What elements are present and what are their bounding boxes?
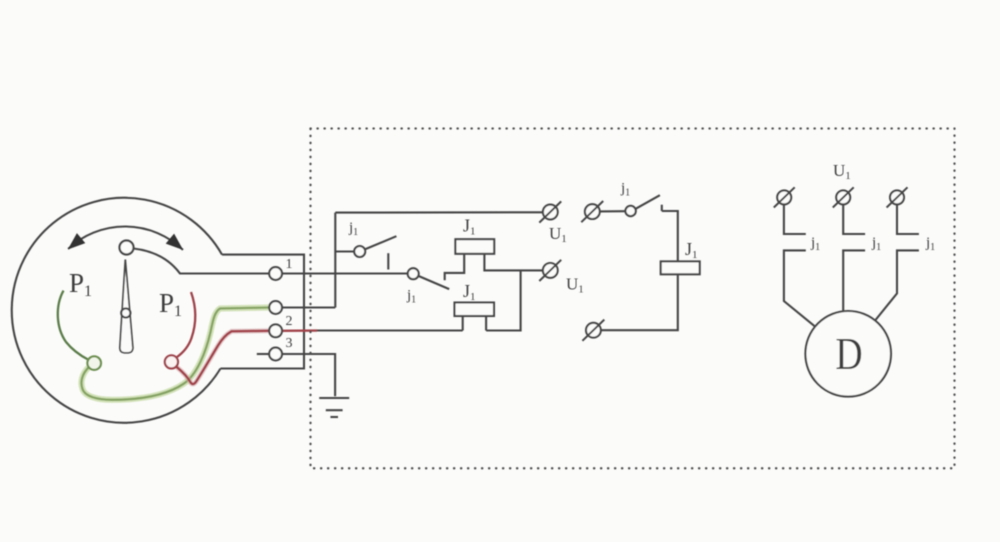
gauge scale double arrow: [68, 226, 183, 250]
wire contact to coil J1: [662, 211, 678, 261]
contact j1 third: [600, 195, 662, 216]
terminal 2: [269, 324, 282, 337]
pressure gauge P1 body: [12, 198, 222, 423]
bottom rail wire (terminal 2 row to relay blocks): [313, 329, 463, 331]
green low-limit set pointer arc P1: [58, 291, 88, 360]
contact j1 second: [408, 268, 450, 289]
svg-text:3: 3: [286, 336, 293, 351]
red wire to terminal 2: [177, 331, 270, 384]
needle pointer: [120, 260, 133, 353]
contact j1 first (relay NO contact): [335, 236, 396, 269]
needle pivot: [121, 308, 130, 317]
relay coil J1: [661, 261, 700, 274]
motor feeder terminal middle (slashed): [833, 187, 854, 207]
motor phase contact j1 right: [875, 204, 919, 320]
svg-text:2: 2: [286, 314, 293, 329]
needle tip contact circle: [120, 241, 134, 255]
ground: [319, 398, 349, 417]
wire coil to terminal branch bottom: [601, 274, 678, 330]
terminal 3: [269, 348, 282, 361]
green contact circle: [87, 356, 101, 370]
wire upper block to terminal U1 B: [484, 254, 542, 271]
wire terminal row2 (green terminal) to bus: [282, 306, 335, 308]
red overlay at terminal 2 exit: [282, 329, 317, 332]
motor feeder terminal left (slashed): [774, 187, 795, 207]
connector step to upper block: [445, 254, 465, 280]
terminal branch top (slashed): [581, 201, 603, 222]
svg-text:D: D: [835, 329, 862, 379]
wire needle contact to terminal 1 and on to contact j1.2: [134, 249, 408, 274]
terminal 1: [269, 267, 282, 280]
terminal U1 mid (slashed): [539, 260, 561, 281]
motor phase contact j1 left: [784, 204, 815, 326]
wire terminal 3 to ground: [282, 354, 335, 396]
relay contact block J1 lower: [455, 303, 495, 331]
red contact circle: [165, 355, 178, 368]
dashed enclosure border: [311, 129, 955, 469]
terminal green row: [269, 301, 282, 314]
bus wire: [334, 213, 336, 308]
terminal 3 stub: [257, 353, 269, 355]
terminal box: [221, 255, 305, 369]
red high-limit set pointer arc P1: [177, 292, 195, 357]
svg-text:1: 1: [286, 257, 293, 272]
terminal U1 top (slashed): [539, 201, 561, 222]
motor phase contact j1 middle: [843, 204, 865, 311]
relay contact block J1 upper: [455, 239, 494, 254]
green wire to terminal row 2: [81, 308, 269, 400]
motor D: [805, 311, 891, 397]
top wire to terminal U1 A: [335, 211, 543, 213]
terminal branch bottom (slashed): [582, 320, 604, 341]
motor feeder terminal right (slashed): [887, 187, 908, 207]
vertical link right of blocks: [486, 270, 520, 330]
